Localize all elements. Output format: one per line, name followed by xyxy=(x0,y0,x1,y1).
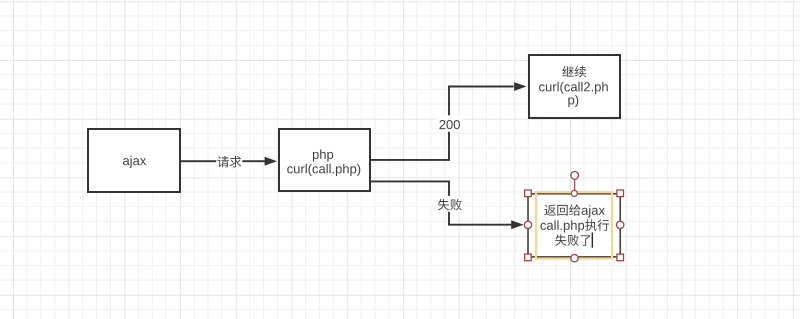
wire edge2 php to curl(call2.php), elbow xyxy=(371,87,514,160)
arrowhead edge1 xyxy=(265,157,277,166)
handle right-middle circle xyxy=(617,221,624,228)
label 请求 xyxy=(216,153,242,170)
handle bottom-right square xyxy=(617,254,624,261)
rotation handle circle xyxy=(571,172,579,180)
text line3 失败了 xyxy=(555,234,590,245)
arrowhead edge3 xyxy=(511,220,523,229)
handle top-right square xyxy=(617,190,624,197)
wire edge1 ajax to php xyxy=(181,160,266,162)
handle top-left square xyxy=(525,190,532,197)
text line2 call.php执行 xyxy=(540,219,608,232)
box fail (selected, editing): editing highlight rect (orange) xyxy=(536,192,612,258)
box php curl(call.php) xyxy=(279,129,370,191)
handle top-middle circle xyxy=(571,190,577,196)
handle left-middle circle xyxy=(524,221,531,228)
label 失败 xyxy=(437,196,464,212)
arrowhead edge2 xyxy=(514,82,526,91)
handle bottom-left square xyxy=(525,254,532,261)
wire edge3 php to fail box, elbow xyxy=(371,181,511,224)
rotation handle stem xyxy=(574,179,576,190)
text caret xyxy=(591,233,593,248)
text line1 返回给ajax xyxy=(544,204,605,217)
selection frame (dark) xyxy=(528,194,620,257)
handle bottom-middle circle xyxy=(571,255,578,262)
box ajax xyxy=(88,129,180,192)
box 继续 curl(call2.php) xyxy=(529,55,620,118)
editing highlight rect (orange) inner redraw xyxy=(536,192,612,258)
label 200 xyxy=(437,115,462,132)
